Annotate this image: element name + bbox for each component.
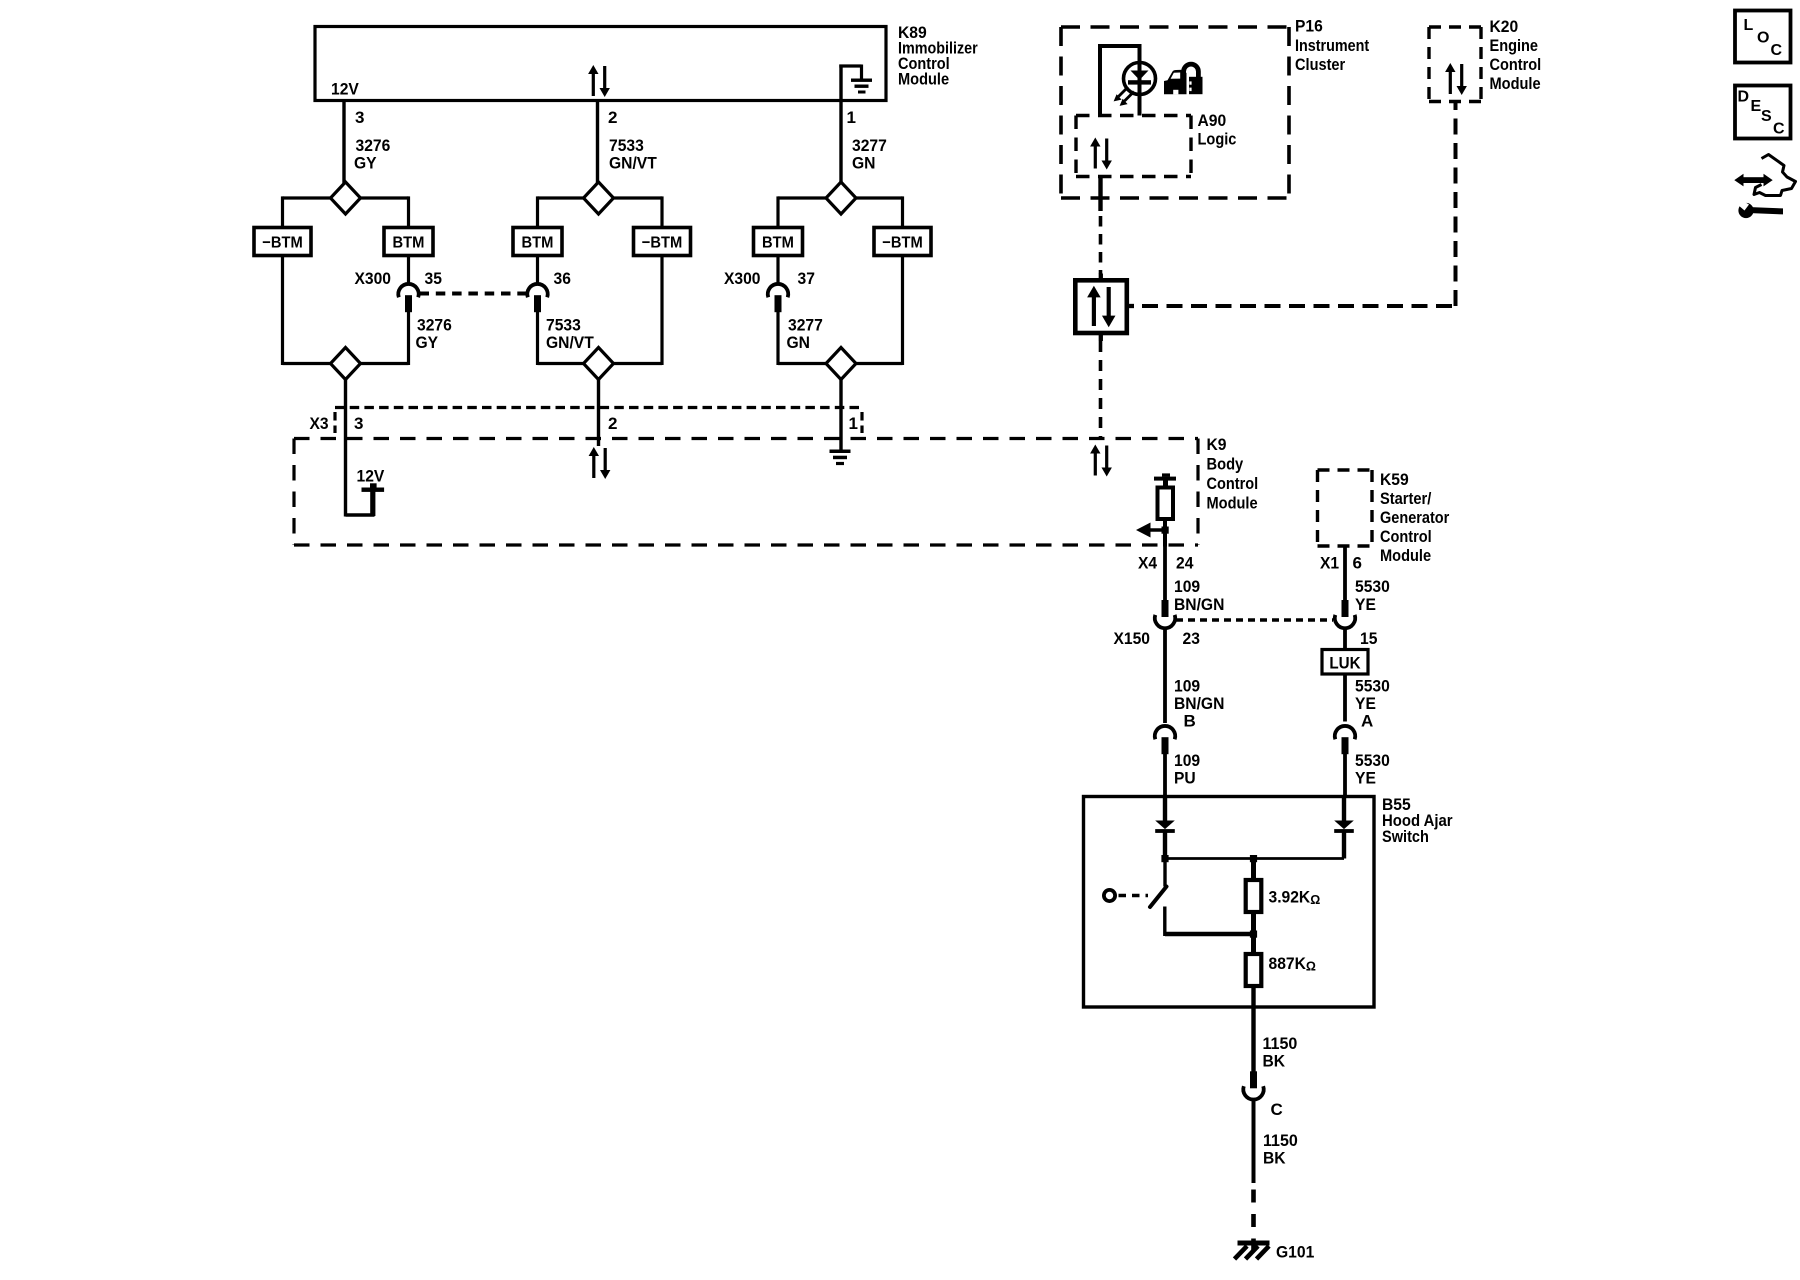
svg-text:Instrument: Instrument [1295, 36, 1369, 55]
svg-text:Starter/: Starter/ [1380, 489, 1432, 508]
svg-text:X300: X300 [724, 269, 761, 288]
svg-text:35: 35 [425, 269, 442, 288]
svg-text:Switch: Switch [1382, 827, 1429, 846]
svg-text:3277: 3277 [788, 316, 823, 335]
svg-text:L: L [1744, 17, 1754, 34]
svg-text:GN: GN [852, 154, 876, 173]
svg-text:23: 23 [1183, 629, 1200, 648]
svg-text:YE: YE [1355, 595, 1376, 614]
svg-text:−BTM: −BTM [642, 235, 683, 252]
svg-text:A: A [1361, 712, 1373, 731]
svg-text:PU: PU [1174, 769, 1196, 788]
svg-text:Module: Module [1380, 546, 1431, 565]
svg-text:Module: Module [898, 70, 949, 89]
svg-text:37: 37 [798, 269, 815, 288]
svg-text:36: 36 [554, 269, 571, 288]
svg-text:C: C [1271, 1100, 1283, 1119]
svg-text:O: O [1757, 30, 1769, 47]
svg-text:15: 15 [1360, 629, 1377, 648]
svg-text:BN/GN: BN/GN [1174, 694, 1224, 713]
svg-text:YE: YE [1355, 694, 1376, 713]
svg-text:X3: X3 [310, 414, 329, 433]
svg-text:7533: 7533 [546, 316, 581, 335]
svg-text:3276: 3276 [417, 316, 452, 335]
svg-text:B: B [1184, 712, 1196, 731]
svg-text:Control: Control [1380, 527, 1432, 546]
svg-text:Engine: Engine [1490, 36, 1539, 55]
svg-text:X150: X150 [1114, 629, 1151, 648]
svg-text:BTM: BTM [393, 235, 425, 252]
svg-text:BTM: BTM [522, 235, 554, 252]
svg-text:12V: 12V [357, 467, 385, 486]
svg-text:K20: K20 [1490, 17, 1519, 36]
svg-text:X1: X1 [1320, 554, 1339, 573]
svg-text:LUK: LUK [1329, 655, 1360, 673]
svg-text:BK: BK [1263, 1052, 1286, 1071]
svg-text:−BTM: −BTM [882, 235, 923, 252]
svg-text:BK: BK [1263, 1149, 1286, 1168]
svg-text:Body: Body [1207, 455, 1244, 474]
svg-text:P16: P16 [1295, 17, 1323, 36]
svg-text:X300: X300 [355, 269, 392, 288]
svg-text:109: 109 [1174, 677, 1200, 696]
svg-text:1150: 1150 [1263, 1034, 1298, 1053]
svg-text:GN: GN [787, 333, 811, 352]
svg-text:1: 1 [849, 414, 858, 433]
svg-text:X4: X4 [1138, 554, 1158, 573]
svg-text:K9: K9 [1207, 435, 1227, 454]
svg-text:Module: Module [1490, 74, 1541, 93]
svg-text:5530: 5530 [1355, 577, 1390, 596]
svg-text:12V: 12V [331, 80, 359, 99]
svg-text:5530: 5530 [1355, 751, 1390, 770]
svg-text:Generator: Generator [1380, 508, 1450, 527]
svg-text:5530: 5530 [1355, 677, 1390, 696]
svg-text:109: 109 [1174, 577, 1200, 596]
svg-text:3277: 3277 [852, 136, 887, 155]
svg-text:24: 24 [1176, 554, 1194, 573]
svg-text:BTM: BTM [762, 235, 794, 252]
svg-text:3: 3 [355, 108, 364, 127]
svg-text:6: 6 [1353, 554, 1362, 573]
svg-text:Cluster: Cluster [1295, 55, 1346, 74]
svg-text:K59: K59 [1380, 470, 1409, 489]
svg-text:GN/VT: GN/VT [609, 154, 657, 173]
svg-text:3: 3 [354, 414, 363, 433]
svg-text:3276: 3276 [356, 136, 391, 155]
svg-text:E: E [1751, 98, 1762, 115]
svg-text:Logic: Logic [1198, 130, 1237, 149]
svg-text:1: 1 [847, 108, 856, 127]
svg-text:BN/GN: BN/GN [1174, 595, 1224, 614]
svg-text:GY: GY [354, 154, 377, 173]
svg-text:Control: Control [1490, 55, 1542, 74]
svg-text:2: 2 [608, 108, 617, 127]
svg-text:7533: 7533 [609, 136, 644, 155]
svg-text:109: 109 [1174, 751, 1200, 770]
svg-text:GY: GY [416, 333, 439, 352]
svg-text:D: D [1738, 89, 1750, 106]
svg-text:G101: G101 [1276, 1243, 1314, 1262]
svg-text:Control: Control [1207, 474, 1259, 493]
svg-text:C: C [1771, 42, 1783, 59]
svg-text:C: C [1773, 121, 1785, 138]
svg-text:−BTM: −BTM [262, 235, 303, 252]
svg-text:S: S [1761, 108, 1772, 125]
svg-text:1150: 1150 [1263, 1131, 1298, 1150]
svg-text:2: 2 [608, 414, 617, 433]
svg-text:Module: Module [1207, 494, 1258, 513]
svg-text:YE: YE [1355, 769, 1376, 788]
svg-text:GN/VT: GN/VT [546, 333, 594, 352]
svg-text:A90: A90 [1198, 111, 1227, 130]
